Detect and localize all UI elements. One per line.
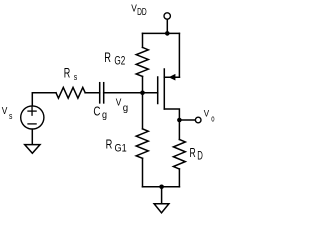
svg-text:V: V (131, 2, 137, 14)
transistor Q1 source arrow (169, 74, 176, 81)
top rail VDD (143, 32, 180, 34)
svg-text:DD: DD (137, 7, 147, 18)
wire Rs to Cg (85, 92, 100, 94)
node Vg junction dot (140, 91, 145, 96)
ground symbol bottom (154, 204, 169, 213)
wire right column VDD to source lead (178, 33, 180, 77)
svg-text:s: s (9, 111, 13, 121)
svg-text:s: s (74, 72, 78, 83)
svg-text:R: R (104, 50, 111, 65)
VDD stem (166, 19, 168, 33)
svg-text:R: R (190, 145, 196, 160)
wire drain node to RD (178, 120, 180, 140)
svg-text:V: V (204, 108, 210, 119)
wire node Vg down to RG1 (142, 93, 144, 129)
svg-text:G2: G2 (114, 55, 125, 67)
svg-text:D: D (197, 151, 203, 163)
node ground junction dot (159, 185, 164, 190)
resistor RG2 (136, 47, 148, 76)
minus sign of Vs (28, 123, 36, 125)
svg-text:V: V (116, 97, 122, 108)
bottom ground rail (143, 186, 180, 188)
wire Vs bottom to ground (31, 129, 33, 145)
svg-text:g: g (102, 110, 107, 121)
resistor Rs (56, 87, 85, 98)
node VDD junction dot (165, 31, 170, 36)
transistor Q1 channel bar (163, 69, 165, 109)
svg-text:o: o (211, 114, 214, 124)
ground stem bottom (161, 187, 163, 204)
voltage source Vs (21, 106, 44, 129)
svg-text:R: R (106, 137, 113, 151)
transistor Q1 drain lead (164, 109, 179, 120)
resistor RD (173, 140, 185, 170)
wire Vs top to Rs (32, 93, 56, 106)
wire RG1 bottom to ground rail (142, 158, 144, 187)
capacitor Cg (99, 83, 101, 103)
VDD terminal circle (164, 13, 170, 19)
transistor Q1 source lead (164, 76, 179, 78)
wire Cg to gate (104, 92, 158, 94)
svg-text:C: C (93, 103, 100, 118)
svg-text:R: R (64, 65, 71, 80)
transistor Q1 gate bar (157, 77, 159, 104)
resistor RG1 (136, 129, 148, 159)
ground symbol under Vs (25, 145, 40, 154)
wire RG2 bottom to node Vg (142, 76, 144, 92)
Vo terminal circle (195, 117, 201, 123)
plus sign of Vs (28, 107, 36, 115)
node drain junction dot (177, 118, 182, 123)
wire drain node to Vo terminal (179, 119, 195, 121)
wire RG2 column top rail to zigzag (142, 33, 144, 47)
svg-text:V: V (2, 105, 8, 117)
svg-text:G1: G1 (115, 143, 127, 155)
svg-text:g: g (123, 103, 128, 114)
wire RD bottom to ground rail (178, 169, 180, 187)
